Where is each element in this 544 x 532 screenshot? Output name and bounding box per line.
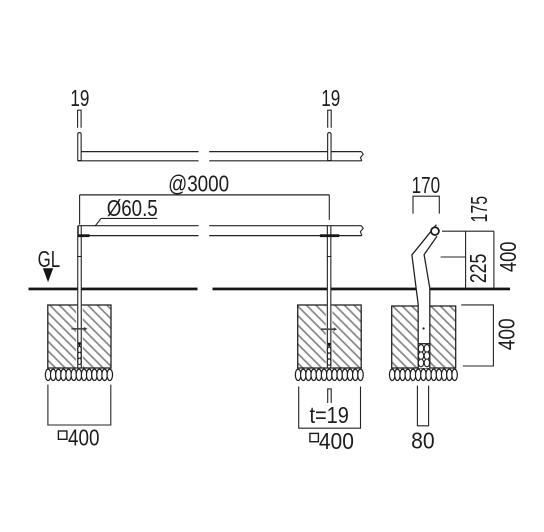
400 lower bracket: [461, 305, 493, 366]
post 1 bent-top thick bar: [78, 234, 90, 237]
svg-text:400: 400: [319, 428, 354, 454]
post 2 (plan view): [328, 133, 331, 161]
post 2 bent-top thick bar: [320, 234, 339, 237]
bent post left edge: [412, 225, 437, 368]
rail top line (plan, right segment): [209, 151, 361, 153]
svg-text:170: 170: [412, 172, 441, 198]
weld arrow in block 1: [71, 328, 84, 330]
foundation block 3 hatched body: [392, 306, 456, 368]
svg-text:t=19: t=19: [309, 402, 349, 428]
weld arrow in block 2: [321, 328, 334, 330]
foundation block 1 hatched body: [48, 305, 111, 368]
ground line right segment: [213, 288, 511, 291]
scallop row under block 1: [45, 369, 112, 380]
svg-text:19: 19: [70, 85, 89, 111]
post 2 (elevation) white body: [327, 226, 331, 344]
scallop row under block 2: [295, 369, 363, 380]
dimension line vertical 1 (175/225): [465, 231, 467, 289]
rail top line (elevation, left segment): [78, 225, 198, 227]
square glyph block 1: [58, 431, 67, 439]
rail bottom line (elevation, right segment): [209, 235, 362, 237]
block 1 bracket (400): [48, 385, 111, 425]
grout bumps under post 2: [327, 347, 331, 365]
rail left end cap (elevation): [77, 226, 79, 236]
extension tick left @3000: [79, 195, 81, 225]
svg-text:400: 400: [495, 242, 521, 273]
post 2 bend joint tick: [327, 256, 332, 258]
rail top line (elevation, right segment): [209, 225, 361, 227]
post 2 pointed tip: [327, 343, 331, 348]
svg-text:400: 400: [493, 318, 519, 350]
extension lines for 19 (post 2 plan): [328, 110, 332, 128]
dimension line vertical 2 (400): [493, 231, 495, 289]
t=19 extension pair: [328, 389, 332, 403]
underline of Ø60.5: [101, 217, 157, 219]
extension tick right @3000: [328, 195, 330, 220]
extension lines for 19 (post 1 plan): [78, 110, 82, 128]
svg-text:19: 19: [321, 85, 340, 111]
extension line top (pipe top level): [442, 230, 494, 232]
rail bottom line (plan, left segment): [78, 160, 199, 162]
bent post body white fill: [412, 225, 437, 368]
post 1 bend joint tick: [77, 256, 82, 258]
post channel white (block 2): [326, 306, 333, 368]
post 3 bottom end line: [418, 343, 430, 345]
rail cross-section circle: [431, 227, 439, 235]
square glyph block 2: [310, 433, 319, 441]
post 2 (elevation) side lines: [326, 226, 328, 344]
weld dot in block 3: [423, 327, 425, 329]
GL marker triangle: [43, 268, 53, 282]
svg-text:80: 80: [411, 428, 435, 454]
leader line of Ø60.5: [95, 218, 101, 226]
rail broken end (elevation): [360, 226, 363, 236]
block 3 bracket (80): [417, 386, 428, 426]
ground line left segment: [29, 288, 198, 291]
scallop row under block 3: [389, 369, 457, 380]
post channel white (block 1): [76, 306, 83, 368]
block 2 bracket (400): [299, 387, 361, 429]
post 1 (elevation) side lines: [77, 226, 79, 343]
post 1 (elevation) white body: [78, 226, 82, 343]
extension line mid (bend level): [441, 256, 466, 258]
svg-text:Ø60.5: Ø60.5: [107, 195, 158, 221]
170 bracket: [413, 196, 439, 213]
svg-text:225: 225: [465, 254, 491, 284]
post 1 (plan view): [78, 133, 81, 161]
bent post right edge: [424, 236, 437, 368]
grout bumps under post 1: [78, 346, 82, 364]
svg-text:400: 400: [68, 424, 100, 450]
grout bumps under post 3: [418, 345, 429, 367]
channel side lines to block bottom (block 2): [326, 343, 328, 368]
svg-text:@3000: @3000: [168, 171, 229, 197]
post 1 pointed tip: [78, 342, 82, 347]
channel side lines to block bottom (block 1): [77, 343, 79, 368]
rail bottom line (plan, right segment): [209, 160, 362, 162]
dimension line @3000: [80, 194, 330, 196]
foundation block 2 hatched body: [298, 305, 362, 368]
rail bottom line (elevation, left segment): [78, 235, 198, 237]
rail broken end (plan): [360, 152, 363, 161]
svg-text:175: 175: [466, 196, 492, 223]
rail top line (plan, left segment): [81, 151, 198, 153]
